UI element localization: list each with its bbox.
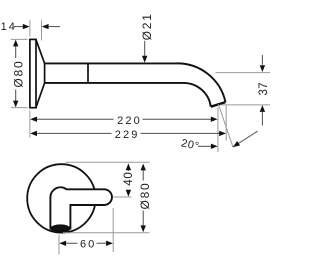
cone flare bottom edge	[36, 83, 45, 108]
svg-text:60: 60	[80, 238, 96, 250]
dim 20deg slanted axis line	[218, 104, 233, 147]
svg-text:40: 40	[123, 171, 135, 185]
dim 40 line + arrows	[126, 163, 131, 170]
dim 229 extension line	[225, 105, 227, 141]
dim 14 extension lines	[30, 20, 42, 40]
svg-text:229: 229	[115, 129, 140, 141]
cone rim vertical join	[44, 63, 46, 83]
dim 37 line + arrows	[261, 55, 263, 65]
svg-text:37: 37	[258, 82, 270, 95]
svg-text:14: 14	[1, 21, 17, 33]
svg-text:20°: 20°	[180, 137, 200, 153]
dim 20deg slanted leader arrow	[233, 131, 258, 147]
svg-text:220: 220	[117, 115, 142, 127]
dim Ø80 left line + arrows	[15, 46, 17, 101]
wall plate (escutcheon side profile)	[30, 39, 36, 107]
dim Ø80 right line + arrows	[141, 164, 146, 171]
svg-text:Ø80: Ø80	[138, 181, 152, 209]
dim 14 right arrow + tail	[42, 24, 49, 29]
dim 40 bottom extension line	[113, 196, 131, 198]
dim 37 extension lines	[216, 73, 271, 105]
dim Ø80 left extension lines	[11, 39, 28, 107]
escutcheon circle	[27, 164, 95, 232]
shared top extension line (circle top)	[66, 161, 150, 163]
dim 60 line + arrows + text	[59, 241, 66, 246]
spout tube outer (top) edge with bend	[45, 63, 226, 102]
cone flare top edge	[36, 40, 45, 64]
svg-text:Ø80: Ø80	[11, 60, 25, 88]
spout outlet dark ellipse	[50, 224, 70, 232]
dim Ø80 bottom extension line	[63, 232, 150, 234]
handle / spout front silhouette	[50, 187, 112, 228]
dim 220 extension lines	[30, 107, 218, 152]
dim 220 line + arrows + text	[30, 117, 37, 122]
dim 14 left leader + arrow	[14, 26, 24, 28]
dim 60 extension lines	[59, 208, 113, 255]
tube joint divider	[87, 63, 89, 83]
dim 229 line + arrows + text	[30, 131, 37, 136]
spout mouth cut line	[211, 102, 226, 107]
svg-text:Ø21: Ø21	[140, 12, 154, 40]
dim 20deg leader arrow (horizontal)	[198, 145, 211, 147]
dim Ø21 line + arrow	[144, 41, 146, 56]
spout tube inner (bottom) edge with bend	[45, 83, 211, 107]
